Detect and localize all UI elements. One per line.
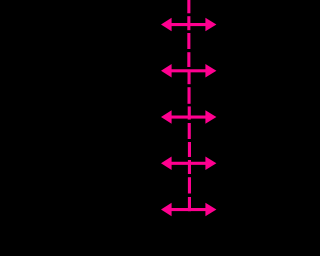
dash 11	[188, 177, 191, 193]
double-headed arrow 3	[161, 110, 216, 124]
dash 8	[188, 123, 191, 139]
dash 12	[188, 197, 191, 211]
dash 9	[188, 142, 191, 157]
dash 5	[188, 72, 191, 84]
double-headed arrow 2	[161, 64, 216, 78]
double-headed arrow 4	[161, 157, 216, 171]
dash 2	[187, 16, 190, 30]
double-headed arrow 1	[161, 18, 216, 32]
dash 6	[188, 87, 191, 104]
dash 7	[188, 106, 191, 119]
dash 3	[187, 33, 190, 49]
dash 1	[187, 0, 190, 13]
dashed vertical centre line	[187, 0, 191, 211]
dash 4	[187, 52, 190, 67]
double-headed arrow 5	[161, 203, 216, 217]
dash 10	[188, 160, 191, 174]
